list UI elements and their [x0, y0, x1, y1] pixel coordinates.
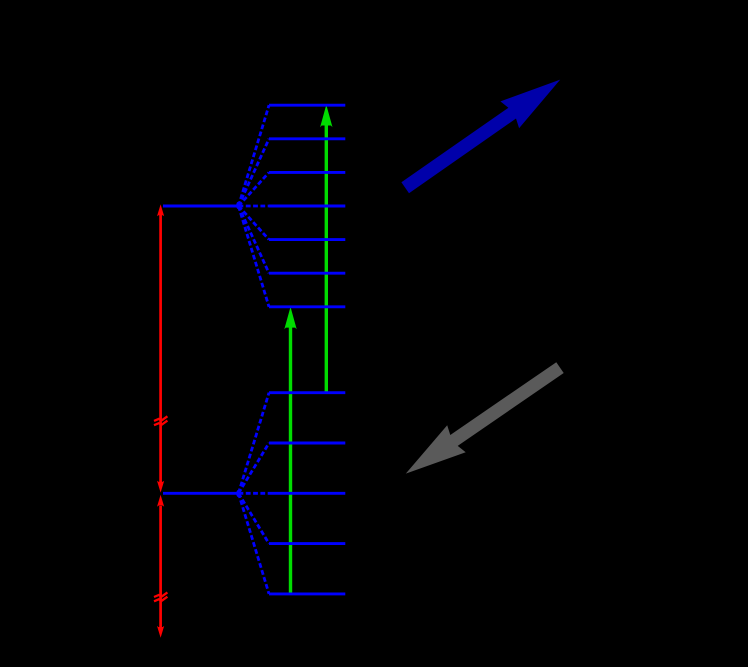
lower fan dashed connector 3: [239, 492, 270, 495]
lower fan dashed connector 1: [239, 393, 270, 494]
lower fan dashed connector 2: [239, 443, 270, 493]
upper sublevel 5: [269, 238, 345, 241]
lower fan node: [236, 490, 239, 497]
upper fan dashed connector 7: [239, 206, 270, 307]
upper fan node: [236, 202, 239, 209]
green transition arrow A shaft: [325, 124, 328, 393]
lower sublevel 5: [269, 592, 345, 595]
upper sublevel 4: [269, 205, 345, 208]
lower sublevel 2: [269, 442, 345, 445]
big gray decay arrow: [406, 362, 564, 473]
upper fan dashed connector 1: [239, 105, 270, 206]
red interval arrow 2 shaft: [159, 506, 162, 628]
lower sublevel 1: [269, 391, 345, 394]
upper fan dashed connector 4: [239, 205, 270, 208]
upper sublevel 7: [269, 305, 345, 308]
upper unsplit level stub: [163, 205, 239, 208]
upper sublevel 1: [269, 104, 345, 107]
red interval arrow 1 bottom head: [157, 481, 164, 493]
red break mark 1: [154, 416, 167, 425]
red break mark 2: [154, 592, 167, 601]
green transition arrow B shaft: [289, 326, 292, 594]
upper sublevel 3: [269, 171, 345, 174]
big blue excitation arrow: [401, 80, 560, 194]
lower fan dashed connector 5: [239, 493, 270, 594]
lower sublevel 4: [269, 542, 345, 545]
upper sublevel 2: [269, 137, 345, 140]
lower unsplit level stub: [163, 492, 239, 495]
upper fan dashed connector 5: [239, 206, 270, 240]
upper sublevel 6: [269, 272, 345, 275]
green transition arrow B head: [284, 307, 296, 329]
lower fan dashed connector 4: [239, 493, 270, 543]
red interval arrow 1 top head: [157, 204, 164, 216]
red interval arrow 1 shaft: [159, 215, 162, 483]
upper fan dashed connector 2: [239, 139, 270, 206]
upper fan dashed connector 6: [239, 206, 270, 273]
green transition arrow A head: [320, 105, 332, 127]
lower sublevel 3: [269, 492, 345, 495]
red interval arrow 2 bottom head: [157, 626, 164, 638]
upper fan dashed connector 3: [239, 172, 270, 206]
red interval arrow 2 top head: [157, 495, 164, 507]
